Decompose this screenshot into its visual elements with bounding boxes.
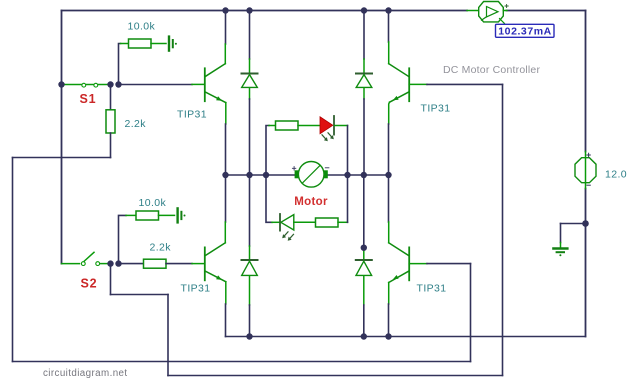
node dot bottom rail 249 bbox=[246, 333, 252, 339]
wire 2.2k R2 top bbox=[110, 85, 112, 110]
ammeter AM1 bbox=[467, 2, 508, 24]
node dot above D4 bbox=[361, 245, 367, 251]
wire LED branch 2 right riser bbox=[347, 175, 349, 222]
wire Q4 collector column bbox=[388, 175, 390, 243]
node junction dot top rail D bbox=[385, 7, 391, 13]
node dot S2 right 2 bbox=[115, 260, 121, 266]
wire Q1 collector column bbox=[224, 11, 226, 64]
wire x470 vertical to Q4 base bbox=[470, 264, 472, 362]
wire Q4 base right stub bbox=[409, 263, 470, 265]
svg-text:2.2k: 2.2k bbox=[125, 118, 147, 130]
wire y157 horizontal bbox=[13, 157, 111, 159]
node dot S2 right 1 bbox=[107, 260, 113, 266]
motor M1 bbox=[292, 162, 329, 188]
svg-text:12.0: 12.0 bbox=[605, 169, 627, 181]
resistor R5 (LED1 series) bbox=[269, 121, 320, 130]
wire top rail right segment bbox=[507, 10, 586, 12]
wire bottom long y361 bbox=[13, 361, 471, 363]
wire base Q1 bbox=[121, 84, 193, 86]
svg-text:10.0k: 10.0k bbox=[128, 21, 156, 33]
wire far-left vertical bbox=[12, 158, 14, 362]
svg-text:2.2k: 2.2k bbox=[150, 242, 172, 254]
svg-text:TIP31: TIP31 bbox=[177, 109, 207, 121]
wire S1 row lead from left vertical bbox=[62, 84, 65, 86]
switch S1 (closed) bbox=[64, 83, 108, 87]
diode D3 lower-left bbox=[242, 175, 258, 337]
node dot motor row 388 bbox=[385, 172, 391, 178]
wire ground spur right bbox=[561, 224, 586, 248]
svg-text:TIP31: TIP31 bbox=[417, 283, 447, 295]
wire Q4 emitter column bbox=[388, 283, 390, 337]
node dot bottom rail 388 bbox=[385, 333, 391, 339]
resistor R 2.2k vertical bbox=[106, 110, 115, 133]
ground for 10.0k lower bbox=[178, 208, 186, 222]
svg-text:S2: S2 bbox=[81, 276, 98, 290]
wire right main vertical upper bbox=[585, 11, 587, 152]
node dot motor row 266 bbox=[263, 172, 269, 178]
wire motor row left bbox=[226, 174, 296, 176]
ammeter readout box 102.37mA bbox=[496, 24, 555, 37]
svg-text:S1: S1 bbox=[80, 92, 97, 106]
node dot motor row 225 bbox=[222, 172, 228, 178]
node junction dot S1 right 1 bbox=[107, 81, 113, 87]
transistor Q3 TIP31 lower-left bbox=[205, 243, 226, 282]
wire bottom bridge rail bbox=[226, 336, 586, 338]
wire Q1 emitter column bbox=[225, 103, 227, 175]
diode D4 lower-right bbox=[356, 175, 372, 337]
wire LED branch 2 left riser bbox=[266, 175, 272, 222]
transistor Q1 TIP31 upper-left bbox=[205, 64, 226, 103]
resistor R 10.0k lower bbox=[126, 211, 175, 220]
resistor R 2.2k lower (horizontal) bbox=[122, 259, 205, 268]
svg-text:DC Motor Controller: DC Motor Controller bbox=[443, 64, 540, 76]
wire 10.0k R3 drop bbox=[119, 215, 127, 263]
svg-text:Motor: Motor bbox=[294, 196, 328, 208]
switch S2 (open) bbox=[62, 252, 108, 265]
wire LED branch 1 left riser bbox=[266, 126, 269, 176]
wire Q3 collector column bbox=[224, 175, 226, 243]
wire LED branch 1 right riser bbox=[347, 126, 349, 176]
ground for 10.0k upper bbox=[169, 37, 177, 51]
node junction dot top rail C bbox=[361, 7, 367, 13]
node dot motor row 363 bbox=[361, 172, 367, 178]
diode D2 upper-right freewheel bbox=[356, 11, 372, 176]
node dot motor row 347 bbox=[344, 172, 350, 178]
svg-text:10.0k: 10.0k bbox=[139, 197, 167, 209]
svg-text:TIP31: TIP31 bbox=[181, 283, 211, 295]
wire 10.0k R1 drop bbox=[119, 44, 121, 85]
svg-text:102.37mA: 102.37mA bbox=[498, 26, 551, 38]
wire Q2 collector column bbox=[388, 11, 390, 64]
wire top rail left segment bbox=[62, 10, 468, 12]
wire right main vertical lower bbox=[585, 189, 587, 337]
node dot motor row 249 bbox=[246, 172, 252, 178]
node junction dot S1 left bbox=[58, 81, 64, 87]
resistor R6 (LED2 series) bbox=[316, 218, 348, 227]
resistor R 10.0k upper bbox=[121, 39, 167, 48]
node dot right rail ground tap bbox=[582, 220, 589, 227]
node dot bottom rail 364 bbox=[361, 333, 367, 339]
wire Q3 emitter column bbox=[225, 282, 227, 337]
node junction dot top rail A bbox=[222, 7, 228, 13]
LED LED1 (lit, red) bbox=[320, 116, 348, 141]
wire left main vertical bbox=[61, 11, 63, 264]
node junction dot top rail B bbox=[246, 7, 252, 13]
transistor Q2 TIP31 upper-right (mirrored) bbox=[389, 64, 410, 102]
wire base Q1 green stub bbox=[192, 83, 204, 85]
transistor Q4 TIP31 lower-right (mirrored) bbox=[389, 243, 410, 283]
voltage source V1 12.0 bbox=[575, 152, 596, 189]
diode D1 upper-left freewheel bbox=[242, 11, 258, 176]
node junction dot S1 right 2 bbox=[115, 81, 121, 87]
svg-text:TIP31: TIP31 bbox=[421, 103, 451, 115]
wire Q2 emitter column bbox=[389, 102, 390, 175]
wire motor row right bbox=[327, 174, 389, 176]
wire 2.2k R2 bottom bbox=[110, 133, 112, 158]
ground right (power ground) bbox=[553, 249, 567, 257]
svg-text:circuitdiagram.net: circuitdiagram.net bbox=[43, 368, 128, 379]
LED LED2 (off, outline) bbox=[272, 214, 316, 241]
wire Q2 base to right bbox=[111, 84, 503, 375]
